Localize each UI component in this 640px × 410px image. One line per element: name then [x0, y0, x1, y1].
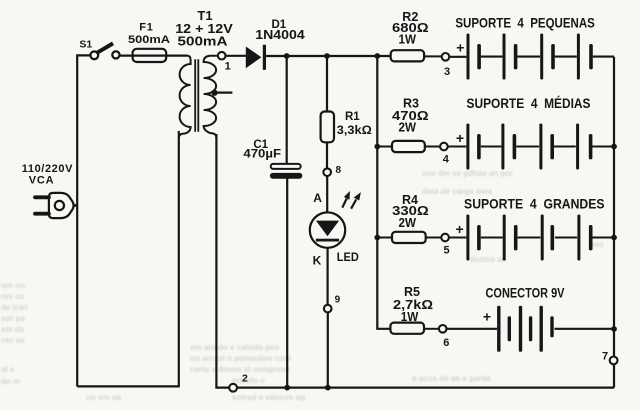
- LED symbol: [310, 191, 359, 267]
- battery holder SUPORTE 4 GRANDES: [449, 195, 614, 260]
- node 5: [441, 234, 449, 257]
- resistor R5: [390, 285, 438, 334]
- svg-text:+: +: [483, 308, 491, 324]
- svg-text:LED: LED: [337, 250, 359, 264]
- node 7: [602, 350, 618, 364]
- svg-text:do m: do m: [1, 377, 20, 386]
- svg-text:500mA: 500mA: [128, 34, 170, 46]
- svg-text:1W: 1W: [401, 310, 419, 324]
- svg-text:3: 3: [444, 66, 450, 78]
- wire right bus: [613, 57, 615, 388]
- fuse F1: [128, 22, 170, 62]
- svg-text:+: +: [456, 130, 464, 146]
- svg-text:2: 2: [242, 372, 248, 384]
- svg-text:no em oa: no em oa: [86, 393, 122, 402]
- transformer T1 labels: [175, 8, 233, 49]
- bleed-through text center bottom: [86, 343, 305, 402]
- wire R1 to node8: [326, 142, 328, 168]
- node 2: [229, 372, 248, 391]
- svg-text:8: 8: [336, 165, 342, 176]
- LED light arrows: [342, 191, 361, 209]
- svg-text:SUPORTE 4 MÉDIAS: SUPORTE 4 MÉDIAS: [467, 96, 591, 111]
- svg-text:+: +: [456, 39, 464, 55]
- battery holder SUPORTE 4 PEQUENAS: [450, 14, 614, 79]
- svg-text:2W: 2W: [399, 120, 417, 134]
- wire LED to node9: [327, 248, 329, 304]
- wire left bus for R3 R4 R5: [377, 56, 391, 329]
- wire diode cathode to C1 junction to R1 junction to left bus: [265, 55, 391, 57]
- svg-text:de tran: de tran: [1, 303, 28, 312]
- svg-text:1: 1: [225, 60, 231, 72]
- svg-text:R1: R1: [345, 111, 360, 123]
- bleed-through text right side: [412, 169, 604, 383]
- svg-text:em da: em da: [1, 325, 25, 334]
- svg-text:sotrad e valores op: sotrad e valores op: [232, 393, 305, 402]
- wire R1 branch down: [326, 56, 328, 112]
- svg-text:2W: 2W: [399, 216, 417, 230]
- resistor R3: [377, 97, 439, 153]
- svg-text:um on: um on: [1, 281, 25, 290]
- svg-text:meado o: meado o: [232, 376, 265, 385]
- svg-text:6: 6: [443, 337, 449, 349]
- svg-text:500mA: 500mA: [178, 34, 229, 49]
- svg-text:sor pa: sor pa: [1, 314, 26, 323]
- bleed-through text left margin: [1, 281, 28, 386]
- svg-text:SUPORTE 4 GRANDES: SUPORTE 4 GRANDES: [464, 195, 605, 211]
- wire secondary top to node1 and diode: [226, 55, 247, 57]
- wire bottom of primary loop: [77, 385, 179, 387]
- svg-text:1W: 1W: [399, 32, 417, 46]
- wire C1 branch down: [286, 56, 288, 165]
- svg-text:9: 9: [335, 295, 341, 306]
- svg-text:certa a dosen el compress: certa a dosen el compress: [190, 365, 291, 374]
- svg-text:7: 7: [602, 350, 608, 362]
- wire node8 to LED: [326, 177, 328, 213]
- node 4: [440, 143, 450, 166]
- svg-text:1N4004: 1N4004: [255, 28, 305, 42]
- mains plug: [22, 163, 77, 218]
- transformer T1 center tap: [212, 90, 233, 96]
- transformer T1 core: [195, 59, 198, 132]
- svg-text:VCA: VCA: [29, 175, 55, 187]
- svg-text:al e: al e: [1, 365, 15, 374]
- svg-text:a acos de ab e garde: a acos de ab e garde: [412, 374, 491, 383]
- capacitor C1: [243, 139, 302, 179]
- switch S1: [79, 39, 119, 60]
- battery CONECTOR 9V: [447, 286, 614, 352]
- wire node9 to bottom: [327, 313, 329, 388]
- svg-text:ose dm se pilhas an por: ose dm se pilhas an por: [422, 169, 513, 178]
- svg-text:S1: S1: [79, 39, 92, 51]
- wire secondary bottom vertical: [216, 134, 228, 388]
- resistor R1: [321, 111, 373, 142]
- diode D1: [246, 19, 305, 70]
- svg-text:4: 4: [443, 154, 450, 166]
- svg-text:110/220V: 110/220V: [22, 163, 73, 175]
- svg-text:5: 5: [444, 245, 450, 257]
- svg-text:K: K: [313, 254, 322, 268]
- svg-text:on arruol o ponusibre com: on arruol o ponusibre com: [190, 354, 291, 363]
- transformer T1 secondary winding: [204, 56, 218, 138]
- svg-text:3,3kΩ: 3,3kΩ: [337, 123, 372, 137]
- battery holder SUPORTE 4 MEDIAS: [448, 96, 614, 169]
- node 3: [442, 53, 450, 78]
- wire primary bottom vertical: [178, 131, 180, 387]
- node 1: [218, 52, 231, 72]
- transformer T1 primary winding: [179, 56, 191, 139]
- resistor R4: [377, 193, 441, 243]
- svg-text:470µF: 470µF: [243, 147, 281, 161]
- node 9: [324, 295, 341, 313]
- node 6: [439, 325, 449, 349]
- svg-text:A: A: [313, 191, 322, 205]
- svg-text:nto se: nto se: [1, 336, 25, 345]
- wire bottom main: [238, 387, 615, 389]
- svg-text:+: +: [456, 221, 464, 237]
- wire C1 bottom down: [286, 178, 288, 388]
- svg-text:CONECTOR 9V: CONECTOR 9V: [486, 286, 565, 301]
- resistor R2: [391, 10, 442, 61]
- wire left vertical mains: [77, 55, 94, 386]
- svg-text:SUPORTE 4 PEQUENAS: SUPORTE 4 PEQUENAS: [455, 14, 595, 30]
- node 8: [323, 165, 341, 176]
- svg-text:em anodo e catodo pos: em anodo e catodo pos: [190, 343, 280, 352]
- svg-text:res co: res co: [1, 292, 25, 301]
- svg-text:F1: F1: [139, 22, 153, 34]
- svg-text:dentro an: dentro an: [470, 255, 507, 264]
- wire top main from S1 to transformer primary: [120, 54, 187, 56]
